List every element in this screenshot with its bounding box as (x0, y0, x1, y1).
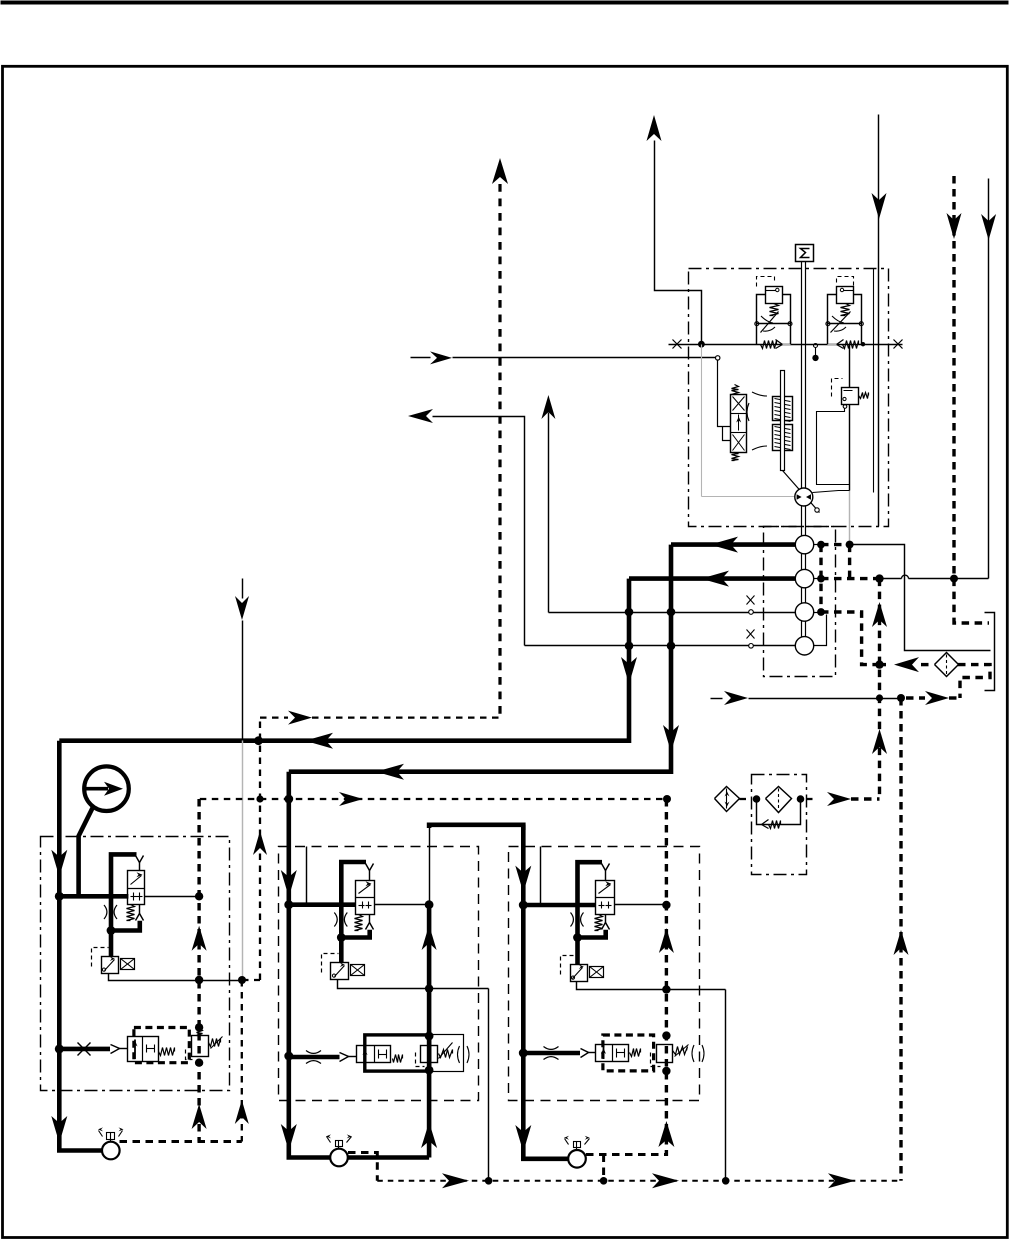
wire: brake pilot dashed loop (242, 979, 260, 981)
brake valve B2 spring (439, 1050, 453, 1058)
counterbalance valve CB2 body (357, 1046, 391, 1063)
wire: supply line x=879 from top with down arrow (878, 115, 880, 345)
wire: block1 pilot dashed riser x=199 (197, 799, 200, 1142)
summing box with sigma (796, 245, 814, 262)
regulator R2 adjustable throttle (828, 323, 862, 325)
brake shuttle valve B1 body (192, 1036, 209, 1057)
wire: block1 feed to counterbalance valve (59, 1047, 110, 1052)
valve V1 bottom port chevron (139, 905, 141, 914)
brake shuttle valve B3 body (657, 1045, 673, 1063)
valve block 1 dash-dot boundary (41, 837, 230, 1091)
counterbalance CB2 inlet chevron (340, 1053, 349, 1062)
counterbalance CB2 thick frame (365, 1035, 430, 1071)
valve V3 bottom port chevron (605, 915, 607, 923)
brake valve B1 dashed bracket (186, 1050, 193, 1060)
wire: brake pilot dashed return x=242 (241, 980, 243, 1142)
wire: block1 feed to valve V1 (59, 894, 128, 899)
pump section P2 circle (795, 569, 813, 587)
solenoid cartridge valve S1 body (102, 957, 119, 974)
solenoid S2 throttle (351, 965, 365, 976)
wire: pilot line valve V2 to work riser (375, 904, 430, 906)
wire: right connector arrow y=357.9 (411, 357, 431, 359)
pump drive shaft double line (801, 262, 803, 646)
valve V1 spring (127, 905, 135, 921)
return filter F2 diamond (766, 787, 792, 813)
brake valve B3 spring (673, 1047, 688, 1055)
brake valve B3 arcs (692, 1045, 694, 1062)
valve V2 spring (355, 915, 363, 931)
wire: block2 main supply (thick) (289, 772, 330, 1158)
pressure compensator feed wire (814, 344, 818, 348)
wire: block3 feed to counterbalance CB3 (523, 1051, 580, 1056)
wire: thin line y=578.6 from x=988 to pilot junction (909, 578, 989, 580)
regulator R2 branch rectangle (828, 295, 837, 345)
wire: pilot line valve V1 to dashed riser (145, 896, 200, 898)
pressure regulator R2 dashed pilot bracket (837, 277, 854, 287)
top rule (1, 1, 1009, 5)
wire: filter outlet dashed with arrow (806, 798, 815, 800)
counterbalance CB1 heavy dashed box (134, 1028, 189, 1063)
hydraulic motor M3 (568, 1150, 586, 1168)
wire: drain line x=988 with down arrow (988, 179, 990, 579)
wire: pilot manifold dashes at pump (819, 545, 822, 612)
brake valve B1 spring (209, 1039, 221, 1047)
brake valve B3 dashed bracket (651, 1053, 661, 1067)
junction dots on supply risers (625, 608, 634, 617)
counterbalance CB2 thin frame (365, 1035, 464, 1072)
wire: P3 line to up connector (549, 612, 796, 614)
wire: block2 feed to counterbalance CB2 (289, 1055, 340, 1060)
wire: block2 sense stub (306, 847, 308, 905)
pump assembly dashed enclosure (689, 269, 889, 527)
motor M2 flushing symbol (338, 1141, 340, 1149)
servo pilot valve feed drop (718, 361, 731, 427)
wire: pilot line valve V3 to dashed riser (615, 904, 667, 906)
wire: solenoid S3 drain to tank line (577, 982, 726, 990)
valve V2 bottom port chevron (369, 915, 371, 923)
wire: series jumper U between sections (429, 825, 523, 830)
solenoid S3 dashed bracket (561, 956, 577, 975)
hydraulic motor M2 (330, 1149, 348, 1167)
wire: thin sense line to port bracket (850, 545, 991, 651)
counterbalance CB2 spring (393, 1055, 403, 1063)
solenoid S2 dashed bracket (322, 954, 339, 973)
brake valve B2 arcs (458, 1046, 460, 1063)
charge pump group dash-dot box (764, 527, 836, 677)
wire: pilot supply riser (dashed) x=500 with up arrow (492, 158, 508, 184)
wire: pump outlet to compensator (813, 491, 850, 493)
wire: main return dashed drop x=901 (899, 698, 902, 1181)
wire: block3 main supply (thick) (523, 825, 568, 1159)
directional valve V2 body (356, 881, 375, 915)
wire: block3 sense stub (540, 847, 542, 905)
compensator spring (859, 393, 869, 399)
wire: motor M3 drain stub to return (602, 1155, 605, 1181)
brake shuttle valve B2 body (421, 1046, 438, 1063)
wire: dashed to filter F1 (921, 663, 934, 666)
counterbalance CB3 spring (630, 1049, 641, 1057)
wire: P4 line to left connector (525, 645, 796, 647)
pump section P4 circle (795, 637, 813, 655)
wire: motor M2 case drain dashed to return (348, 1153, 377, 1181)
valve V2 top port chevron (366, 864, 374, 871)
solenoid cartridge valve S3 body (571, 965, 588, 982)
wire: motor M2 return to work line (348, 1155, 429, 1160)
wire: solenoid S2 drain to tank line (338, 980, 489, 989)
wire: main supply B (thick) from P2 (629, 576, 795, 581)
pilot tap stubs on pump sections (814, 544, 821, 546)
wire: valve V2 bottom to solenoid S2 (341, 930, 369, 938)
valve block 3 dashed boundary (509, 847, 700, 1101)
gauge G1 stem (79, 807, 93, 896)
wire: common return dashed line y=1181 (377, 1180, 901, 1182)
swash plate arm (783, 471, 820, 513)
counterbalance CB3 inlet chevron (581, 1049, 589, 1058)
wire: pilot dashed elbow to port bracket (954, 579, 989, 623)
pump section P1 circle (795, 535, 813, 553)
wire: block3 pilot dashed riser x=666 (665, 799, 668, 1156)
centering spring left with arrow (761, 341, 777, 349)
wire: motor M1 case drain dashed (120, 1140, 242, 1143)
counterbalance valve CB3 body (596, 1045, 629, 1062)
wire: filter F1 to tank port (958, 665, 990, 698)
servo valve springs (732, 385, 739, 395)
orifice on block3 riser (571, 913, 574, 927)
pressure regulator R2 body (837, 287, 854, 304)
pressure compensator valve body (832, 379, 843, 397)
pressure regulator R1 body (766, 287, 783, 304)
wire: block2 riser to valve V2 top (341, 862, 366, 905)
suction filter F1 diamond (935, 653, 959, 677)
orifice on block1 riser (104, 905, 107, 919)
servo cylinder arcs (752, 392, 767, 396)
counterbalance valve CB1 body (128, 1037, 159, 1062)
solenoid S1 throttle (121, 959, 135, 970)
centering spring right with arrow (843, 341, 859, 349)
motor M3 flushing symbol (576, 1142, 578, 1151)
wire: pilot dashed drop x=879.5 (878, 579, 881, 799)
port bracket right side (985, 613, 995, 691)
wire: brake feed connector x=242 with down arrow (242, 579, 244, 599)
wire: block2 work line x=429 (thick) (427, 905, 432, 1158)
wire: block3 feed to valve V3 (523, 903, 595, 908)
plug port on P4 line (749, 644, 754, 649)
wire: block2 feed to valve V2 (289, 902, 356, 907)
brake valve B2 dashed bracket (416, 1053, 425, 1067)
motor M1 flushing symbol (110, 1133, 112, 1142)
servo piston rod (781, 371, 785, 471)
swash-plate control line with plugged ends (669, 344, 903, 346)
inner pump housing boundary (873, 269, 875, 493)
wire: block3 riser to valve V3 top (578, 862, 603, 905)
orifice on block2 riser (334, 913, 337, 927)
valve V3 spring (595, 915, 603, 931)
solenoid cartridge valve S2 body (331, 963, 349, 980)
wire: pilot dashed to supply riser (260, 716, 288, 718)
valve block 2 dashed boundary (279, 847, 479, 1101)
wire: valve V1 bottom to solenoid valve S1 (111, 921, 140, 931)
wire: pilot return dashed y=799 (200, 798, 500, 800)
wire: solenoid S1 drain (109, 974, 242, 981)
pressure gauge G1 (84, 766, 129, 811)
valve V3 top port chevron (602, 864, 610, 871)
valve V1 top port chevron (136, 856, 144, 863)
regulator R1 adjustable throttle (757, 323, 791, 325)
wire: load-sense line y=698 with arrow (711, 698, 723, 700)
wire: case-drain connector x=654 with up arrow (647, 115, 662, 141)
directional valve V3 body (596, 881, 615, 915)
directional valve V1 body (128, 871, 145, 905)
solenoid S1 dashed bracket (92, 948, 109, 967)
main pump circle (795, 488, 813, 506)
servo pilot valve body (731, 395, 747, 453)
regulator R1 spring (770, 304, 779, 316)
filter bypass check valve (757, 799, 801, 825)
wire: feed line to servo pilot valve (641, 357, 716, 359)
pump section P3 circle (795, 603, 813, 621)
wire: dashed arrow from sense junction (906, 696, 925, 699)
wire: main supply A (thick) from P1 (671, 542, 795, 547)
wire: cooler to filter (740, 798, 752, 800)
regulator R1 branch rectangle (757, 295, 766, 345)
compensator drain wires (843, 405, 847, 409)
solenoid S3 throttle (590, 967, 604, 978)
wire: motor M3 case drain dashed (586, 1153, 666, 1156)
return filter F2 dash-dot box (752, 775, 807, 875)
cooler diamond (715, 787, 740, 812)
wire: valve V3 bottom to solenoid S3 (578, 930, 606, 938)
counterbalance CB1 inlet chevron (111, 1045, 120, 1054)
pressure regulator R1 dashed pilot bracket (757, 277, 775, 287)
hydraulic motor M1 (102, 1142, 120, 1160)
wire: block1 riser to valve V1 top (111, 854, 137, 896)
counterbalance CB1 spring (159, 1048, 175, 1056)
plug port on P3 line (749, 610, 754, 615)
wire: block1 main supply (thick) (59, 741, 102, 1151)
servo cylinder with springs (773, 397, 793, 421)
regulator R2 spring (841, 304, 850, 316)
wire: pilot dashed line x=954 with down arrow (952, 176, 955, 579)
counterbalance CB3 heavy dashed box (603, 1035, 654, 1071)
